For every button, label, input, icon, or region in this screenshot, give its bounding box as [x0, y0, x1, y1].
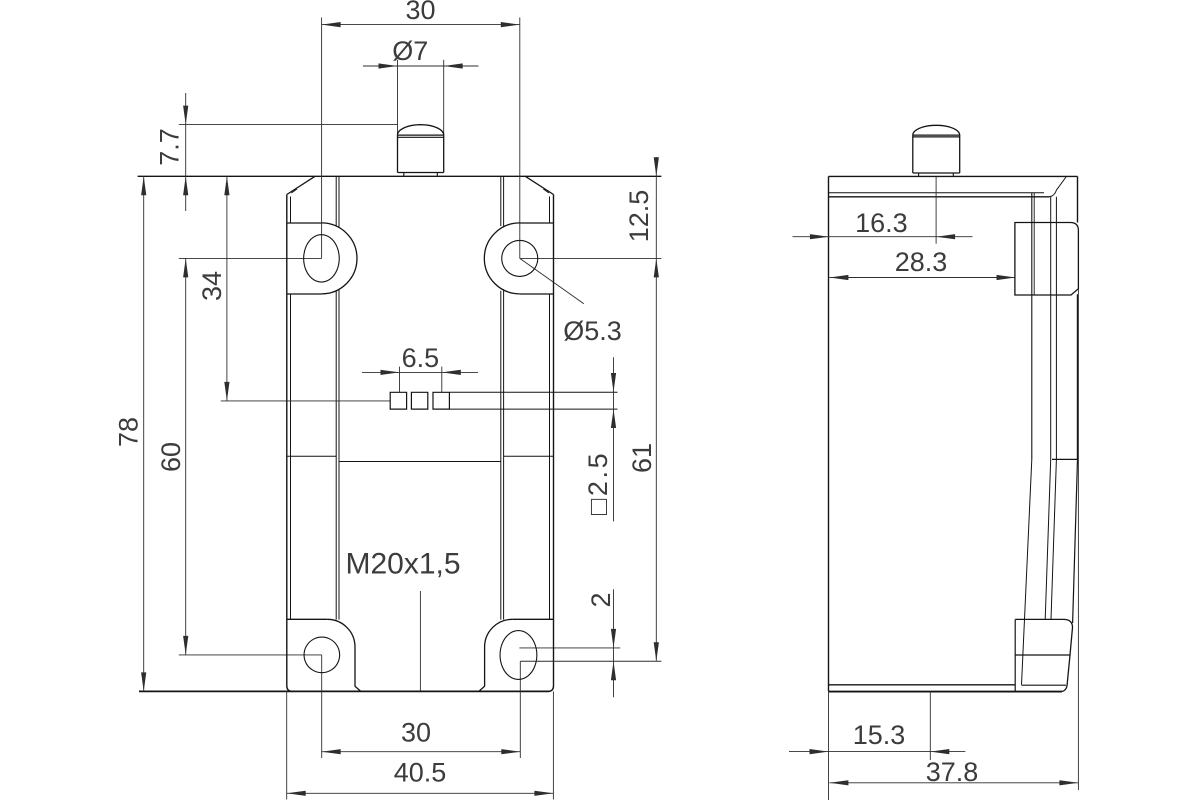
- svg-text:30: 30: [401, 718, 431, 748]
- svg-text:7.7: 7.7: [155, 128, 185, 166]
- svg-text:12.5: 12.5: [624, 190, 654, 243]
- svg-text:30: 30: [405, 0, 435, 25]
- svg-text:Ø7: Ø7: [392, 36, 428, 66]
- svg-text:□2.5: □2.5: [583, 451, 613, 515]
- svg-text:M20x1,5: M20x1,5: [345, 547, 460, 580]
- svg-text:61: 61: [627, 443, 657, 473]
- svg-text:15.3: 15.3: [853, 720, 906, 750]
- svg-text:28.3: 28.3: [895, 247, 948, 277]
- svg-text:2: 2: [586, 592, 616, 607]
- svg-text:40.5: 40.5: [394, 758, 447, 788]
- svg-text:34: 34: [197, 271, 227, 301]
- svg-text:Ø5.3: Ø5.3: [563, 316, 622, 346]
- svg-text:78: 78: [114, 417, 144, 447]
- svg-text:6.5: 6.5: [402, 343, 440, 373]
- svg-text:16.3: 16.3: [855, 208, 908, 238]
- svg-text:60: 60: [156, 442, 186, 472]
- svg-text:37.8: 37.8: [926, 757, 979, 787]
